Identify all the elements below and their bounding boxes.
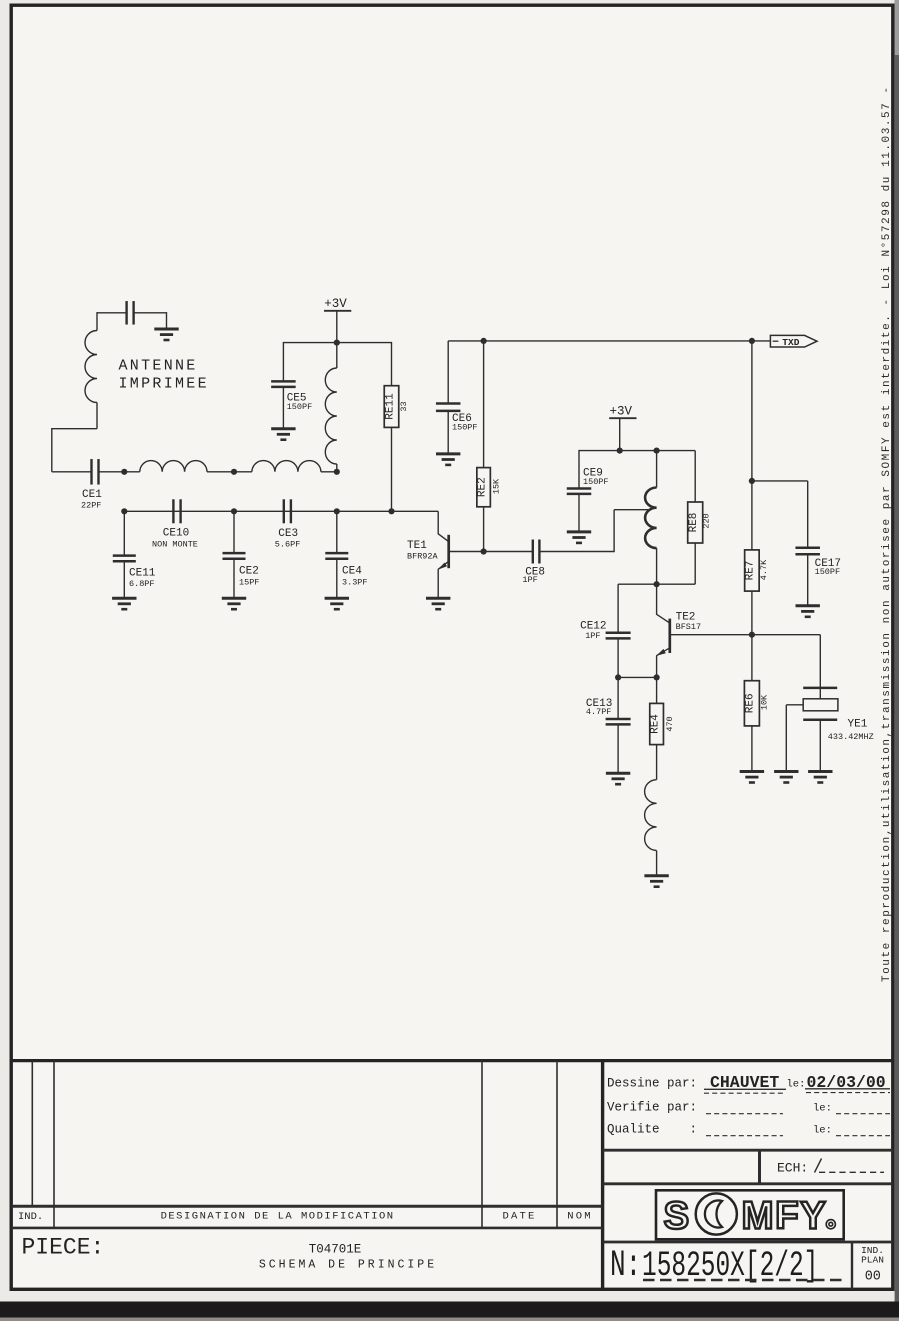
svg-text:CE3: CE3: [278, 528, 298, 540]
scan edge bottom band: [0, 1302, 899, 1318]
svg-text:1PF: 1PF: [522, 575, 537, 585]
node TE2 base / RE6: [749, 632, 755, 638]
svg-text:00: 00: [865, 1270, 881, 1285]
wire TE1 base to CE8: [484, 551, 533, 553]
svg-text:CE11: CE11: [129, 567, 156, 579]
wire L1 to node B: [207, 471, 252, 473]
ground (CE4): [325, 598, 349, 609]
svg-text:BFS17: BFS17: [676, 622, 702, 632]
wire +3V rail 2: [579, 450, 695, 452]
svg-text:220: 220: [702, 513, 712, 528]
capacitor CE5: [282, 342, 284, 381]
svg-text:150PF: 150PF: [452, 422, 478, 432]
ground (L5): [644, 876, 668, 887]
svg-text:NOM: NOM: [567, 1211, 593, 1223]
antenna top coupling capacitor: [125, 301, 127, 325]
svg-text:RE4: RE4: [649, 714, 661, 734]
svg-text:DATE: DATE: [502, 1211, 536, 1223]
svg-text:4.7PF: 4.7PF: [586, 707, 612, 717]
capacitor CE1: [90, 459, 92, 485]
svg-text:Verifie par:: Verifie par:: [607, 1101, 697, 1115]
capacitor CE2: [233, 511, 235, 553]
svg-text:PLAN: PLAN: [861, 1255, 884, 1266]
svg-text:IMPRIMEE: IMPRIMEE: [119, 376, 209, 393]
svg-text:33: 33: [399, 401, 409, 411]
capacitor CE6: [447, 341, 449, 403]
svg-text:+3V: +3V: [610, 405, 633, 419]
wire CE1 to node A: [99, 471, 140, 473]
section line above title block: [11, 1059, 893, 1062]
scan edge right band: [895, 0, 899, 1302]
node row2 x234: [231, 508, 237, 514]
ground (RE6): [740, 772, 764, 783]
svg-text:RE8: RE8: [688, 513, 700, 533]
svg-text:6.8PF: 6.8PF: [129, 579, 155, 589]
node emitter row left: [615, 674, 621, 680]
inductor L5 (emitter): [645, 780, 657, 851]
N row line: [603, 1241, 893, 1244]
inductor L3 (shunt at +3V): [336, 343, 338, 368]
antenna printed-loop coil: [96, 312, 98, 330]
wire emitter row: [618, 676, 657, 678]
wire antenna-cap right to ground corner: [134, 312, 167, 314]
somfy logo letters: [664, 1193, 836, 1237]
svg-text:T04701E: T04701E: [309, 1242, 362, 1256]
svg-text:ECH:: ECH:: [777, 1160, 808, 1175]
svg-text:22PF: 22PF: [81, 500, 101, 510]
resistor RE11: [391, 342, 393, 386]
node emitter row right: [654, 674, 660, 680]
node row2 x391 (RE11 bottom): [388, 508, 394, 514]
inductor L1 (bus): [140, 461, 207, 472]
svg-text:NON MONTE: NON MONTE: [152, 539, 198, 549]
resistor RE7: [751, 341, 753, 550]
svg-text:1PF: 1PF: [585, 631, 600, 641]
ground (CE9): [567, 532, 591, 543]
svg-text:DESIGNATION DE LA MODIFICATION: DESIGNATION DE LA MODIFICATION: [161, 1211, 395, 1223]
capacitor CE4: [336, 511, 338, 553]
node RE7/CE17: [749, 478, 755, 484]
svg-text:433.42MHZ: 433.42MHZ: [828, 732, 874, 742]
node row2 x124: [121, 508, 127, 514]
ground (TE1 emitter): [426, 598, 450, 609]
svg-text:SCHEMA DE PRINCIPE: SCHEMA DE PRINCIPE: [259, 1258, 437, 1271]
ground (CE13): [606, 773, 630, 784]
capacitor CE17: [752, 480, 808, 482]
wire antenna feed down to bus: [52, 428, 97, 430]
svg-text:TE1: TE1: [407, 540, 427, 552]
svg-text:S: S: [664, 1195, 692, 1238]
ground (CE2): [222, 598, 246, 609]
node rail2 coil top: [654, 448, 660, 454]
svg-text:N:: N:: [610, 1244, 641, 1287]
ground (CE6): [436, 454, 460, 465]
wire TXD rail: [448, 340, 770, 342]
inductor L4 (tapped, collector load): [656, 451, 658, 488]
node TXD/RE2: [481, 338, 487, 344]
resistor RE8: [694, 451, 696, 502]
svg-text:RE7: RE7: [745, 561, 757, 581]
svg-text:150PF: 150PF: [815, 567, 841, 577]
svg-text:15PF: 15PF: [239, 577, 259, 587]
svg-text:Dessine par:: Dessine par:: [607, 1076, 697, 1090]
capacitor CE12: [617, 584, 619, 632]
svg-text:CE2: CE2: [239, 566, 259, 578]
node B (x234): [231, 469, 237, 475]
wire CE8 to tap: [539, 551, 614, 553]
svg-text:CE10: CE10: [163, 527, 189, 539]
ground (YE1 bottom): [808, 772, 832, 783]
capacitor CE13: [617, 677, 619, 718]
somfy logo box: [656, 1190, 844, 1239]
node TXD/RE7: [749, 338, 755, 344]
svg-text:5.6PF: 5.6PF: [275, 539, 301, 549]
node +3V rail: [334, 340, 340, 346]
ground (CE11): [112, 598, 136, 609]
svg-text:CE4: CE4: [342, 566, 362, 578]
net flag TXD: [770, 335, 817, 347]
resistor RE2: [483, 341, 485, 468]
node row2 x337: [334, 508, 340, 514]
capacitor CE3: [283, 499, 285, 523]
transistor TE2: [656, 584, 658, 615]
svg-text:Toute reproduction,utilisation: Toute reproduction,utilisation,transmiss…: [881, 85, 893, 982]
svg-text:YE1: YE1: [848, 719, 868, 731]
resistor RE4: [656, 677, 658, 703]
crystal YE1: [803, 687, 837, 690]
wire crystal case to ground: [786, 704, 803, 706]
revision header row lines: [11, 1205, 602, 1208]
svg-text:4.7K: 4.7K: [759, 559, 769, 580]
capacitor CE8: [532, 540, 534, 564]
capacitor CE9: [578, 450, 580, 488]
svg-text:le:: le:: [813, 1103, 832, 1115]
svg-text:10K: 10K: [760, 694, 770, 710]
wire RE8 bottom / coil bottom: [618, 583, 695, 585]
node TE1 base / RE2: [481, 548, 487, 554]
svg-text:15K: 15K: [492, 478, 502, 494]
wire antenna-cap left: [97, 312, 127, 314]
node C (x337): [334, 469, 340, 475]
svg-text:150PF: 150PF: [583, 477, 609, 487]
svg-text:RE2: RE2: [476, 477, 488, 497]
wire row2 bus: [124, 510, 438, 512]
transistor TE1 collector wire: [437, 511, 439, 534]
svg-text:PIECE:: PIECE:: [22, 1234, 105, 1260]
transistor TE1: [447, 535, 450, 568]
ech row lines: [603, 1149, 893, 1152]
wire L2 to node C: [321, 471, 337, 473]
resistor RE6: [751, 635, 753, 681]
svg-text:TXD: TXD: [782, 337, 799, 348]
svg-text:RE11: RE11: [384, 393, 396, 420]
capacitor CE11: [123, 511, 125, 555]
ground (CE17): [796, 606, 820, 617]
node A (x124): [121, 469, 127, 475]
svg-text:ANTENNE: ANTENNE: [119, 358, 198, 375]
svg-text:le:: le:: [787, 1078, 806, 1090]
ground (YE1 case): [774, 772, 798, 783]
svg-text:CE1: CE1: [82, 489, 102, 501]
svg-text:IND.: IND.: [18, 1211, 43, 1223]
ground (antenna cap): [154, 329, 178, 340]
svg-text:BFR92A: BFR92A: [407, 551, 439, 561]
N: number text: [610, 1244, 818, 1287]
inductor L2 (bus): [252, 461, 321, 472]
revision table verticals: [31, 1061, 33, 1207]
svg-text:RE6: RE6: [745, 693, 757, 713]
svg-text:Qualite :: Qualite :: [607, 1123, 697, 1137]
ground (CE5): [271, 429, 295, 440]
svg-text:3.3PF: 3.3PF: [342, 577, 368, 587]
svg-text:470: 470: [665, 716, 675, 731]
svg-text:+3V: +3V: [324, 297, 347, 311]
wire TE2 base to crystal: [752, 634, 820, 636]
node rail2 +3V feed: [617, 448, 623, 454]
svg-text:le:: le:: [813, 1125, 832, 1137]
capacitor CE10: [172, 499, 174, 523]
title block left border: [601, 1059, 604, 1289]
+3V rail wire: [283, 342, 391, 344]
node coil bottom: [654, 581, 660, 587]
svg-text:MFY: MFY: [742, 1195, 828, 1238]
svg-text:150PF: 150PF: [287, 402, 313, 412]
